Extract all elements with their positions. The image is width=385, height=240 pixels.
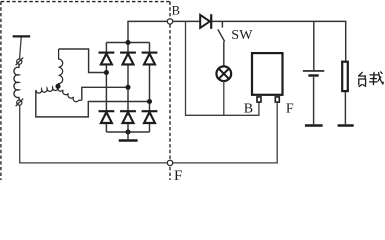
- battery positive plate: [303, 70, 324, 72]
- label 负载 (load) hand-drawn glyphs: [359, 72, 384, 87]
- ground (load): [338, 124, 354, 126]
- stator phase winding 1 (vertical): [58, 49, 63, 86]
- node: phase1-col1: [104, 70, 109, 75]
- wire: top B+ rail from node B to load corner: [170, 21, 346, 60]
- wire: bridge bottom rail: [106, 131, 149, 133]
- switch SW: [221, 21, 223, 27]
- wire: ground bar to brush: [20, 38, 22, 59]
- node: bottom rail center: [125, 129, 130, 134]
- ground (rotor field, top-left): [13, 35, 31, 37]
- load resistor: [342, 62, 348, 91]
- wire: bridge top rail: [106, 42, 149, 44]
- battery negative plate: [308, 74, 318, 76]
- voltage regulator box: [252, 53, 283, 95]
- wire: phase3 to bridge column2: [82, 87, 128, 100]
- wire: switch to lamp: [223, 42, 225, 67]
- svg-text:F: F: [174, 168, 182, 180]
- stator phase winding 3 (lower-right): [57, 86, 81, 101]
- rectifier diode D5 (bottom row, col2): [120, 111, 136, 123]
- wire: regulator F to F node: [170, 103, 277, 163]
- svg-text:SW: SW: [231, 28, 253, 43]
- rectifier diode D4 (bottom row, col1): [99, 111, 115, 123]
- wire: phase2 to bridge column3: [36, 91, 150, 117]
- ground (rectifier negative): [127, 132, 129, 139]
- alternator dashed enclosure: [1, 2, 170, 180]
- svg-text:B: B: [244, 102, 253, 117]
- indicator lamp: [216, 66, 231, 81]
- wire: column2: [127, 43, 129, 133]
- node: phase2-col3: [147, 99, 152, 104]
- wire: phase1 to bridge column1: [59, 49, 107, 73]
- node: star point: [55, 84, 60, 89]
- wire: B node left to bridge center column: [128, 21, 170, 42]
- rectifier diode D2 (top row, col2): [120, 53, 136, 65]
- 载: [370, 74, 379, 76]
- stator phase winding 2 (lower-left): [36, 86, 58, 93]
- wire: column1: [105, 43, 107, 133]
- wire: battery to ground: [313, 77, 315, 124]
- rectifier diode D6 (bottom row, col3): [142, 111, 158, 123]
- regulator terminal F stub: [275, 97, 279, 102]
- svg-text:F: F: [286, 102, 294, 117]
- wire: lamp to bus: [223, 81, 225, 115]
- wire: load to ground: [344, 92, 346, 124]
- brush/slip-ring lower: [16, 99, 24, 107]
- rectifier diode D3 (top row, col3): [142, 53, 158, 65]
- field winding (rotor coil): [14, 64, 19, 100]
- rectifier diode D1 (top row, col1): [99, 53, 115, 65]
- node: phase3-col2: [125, 85, 130, 90]
- isolation diode D7: [200, 14, 211, 29]
- node: B rail junction: [125, 40, 130, 45]
- node F terminal: [167, 160, 172, 165]
- ground (battery): [305, 124, 323, 126]
- node B terminal: [167, 19, 172, 24]
- wire: field return to F node: [20, 105, 170, 163]
- wire: pre-diode tap down and bus to regulator B: [186, 21, 259, 115]
- 负: [359, 72, 363, 76]
- battery branch: [313, 21, 315, 70]
- regulator terminal B stub: [257, 97, 261, 102]
- wire: column3: [149, 43, 151, 133]
- brush/slip-ring upper: [16, 58, 24, 66]
- svg-text:B: B: [172, 3, 180, 17]
